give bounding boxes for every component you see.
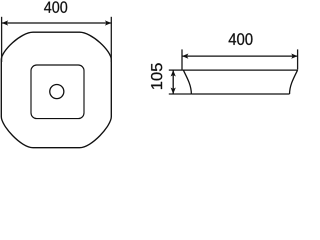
top view dimension arrow right [105,20,111,25]
top view width dimension line [2,22,112,24]
side view height dimension extension tick bottom [169,93,192,95]
side view right flared side [290,70,298,94]
side view height dimension arrow down [171,88,176,95]
side view width dimension text 400 [229,33,253,45]
top view inner basin outline [31,65,84,119]
side view height dimension line [172,70,174,94]
drain hole circle [50,85,64,99]
side view height dimension text 105 [151,63,162,89]
side view width dimension line [182,55,298,57]
side view width dimension arrow right [291,54,297,59]
top view outer rim outline [1,32,111,148]
top view dimension text 400 [44,1,67,12]
top view width dimension extension line right [110,17,112,62]
side view height dimension extension tick top [169,69,183,71]
side view top edge [183,69,298,71]
top view dimension arrow left [2,20,8,25]
side view width dimension arrow left [182,54,188,59]
side view width dimension extension line left [181,49,183,69]
side view bottom edge [191,93,289,95]
side view height dimension arrow up [171,70,176,76]
side view left flared side [183,70,191,94]
top view width dimension extension line left [1,17,3,62]
side view width dimension extension line right [297,49,299,69]
